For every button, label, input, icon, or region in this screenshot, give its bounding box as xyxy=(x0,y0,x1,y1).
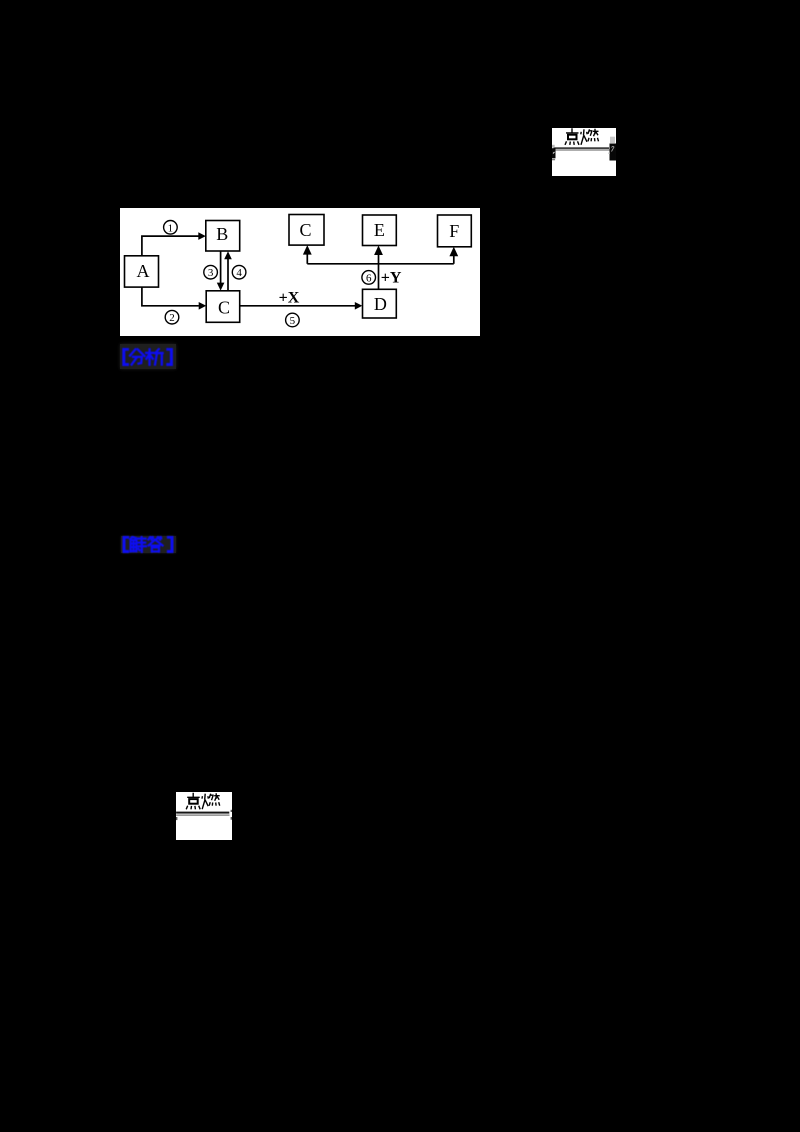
circled 2 xyxy=(165,310,179,324)
box F xyxy=(438,215,472,247)
xi xyxy=(146,349,162,365)
heading answer (blue) xyxy=(121,536,176,553)
svg-text:C: C xyxy=(218,297,230,317)
svg-text:C: C xyxy=(299,219,311,239)
right bracket xyxy=(168,537,172,552)
box B xyxy=(206,220,240,251)
equation double line 2 xyxy=(176,812,229,814)
svg-text:3: 3 xyxy=(208,267,214,279)
svg-text:E: E xyxy=(374,220,385,240)
equation double line 1 xyxy=(553,147,608,148)
circled 6 xyxy=(362,270,376,284)
circled 1 xyxy=(164,220,178,234)
arrow 2: A to C xyxy=(142,287,199,306)
connector arrow to F xyxy=(453,255,455,264)
left bracket xyxy=(124,537,128,552)
svg-text:B: B xyxy=(216,223,228,243)
circled 4 xyxy=(232,265,246,279)
svg-text:1: 1 xyxy=(168,222,174,234)
left bracket xyxy=(124,349,128,365)
svg-text:5: 5 xyxy=(290,315,296,327)
fen xyxy=(130,349,145,364)
jie xyxy=(130,537,146,552)
arrow 5: C to D with +X label xyxy=(240,304,355,306)
box C middle xyxy=(206,290,240,322)
svg-text:+Y: +Y xyxy=(381,269,402,286)
svg-text:F: F xyxy=(449,220,459,240)
right bracket xyxy=(168,349,172,365)
box C top-right xyxy=(289,214,324,245)
box A xyxy=(125,255,159,286)
arrow 6: D up to E with +Y label xyxy=(378,253,380,289)
circled 3 xyxy=(204,265,218,279)
equation image 1 (ignition condition over double line) xyxy=(552,128,617,177)
dianran text 2 xyxy=(186,793,220,810)
svg-text:A: A xyxy=(137,260,150,280)
box E xyxy=(363,215,397,246)
circled 5 xyxy=(286,313,300,327)
燃 xyxy=(580,129,586,144)
da xyxy=(148,537,162,552)
svg-text:4: 4 xyxy=(236,267,242,279)
reaction flow diagram xyxy=(120,208,480,337)
arrow 4: C up to B xyxy=(227,258,229,290)
arrow 3: B down to C xyxy=(220,251,222,283)
heading analysis (blue) xyxy=(120,344,176,369)
edge specks xyxy=(231,810,232,812)
equation image 2 (ignition condition over double line) xyxy=(176,792,232,840)
svg-text:D: D xyxy=(374,294,387,314)
right edge fragment xyxy=(610,136,615,142)
点 xyxy=(566,128,578,133)
box D xyxy=(363,289,397,318)
dianran text 1 xyxy=(565,128,598,145)
svg-text:2: 2 xyxy=(169,312,175,324)
left edge fragment xyxy=(552,144,555,147)
connector from D line to C top xyxy=(307,262,454,264)
svg-text:+X: +X xyxy=(279,289,300,306)
svg-text:6: 6 xyxy=(366,272,372,284)
arrow 1: A to B xyxy=(142,236,199,256)
